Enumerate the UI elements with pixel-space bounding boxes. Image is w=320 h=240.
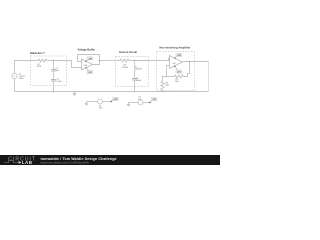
OA1 -15V flag: [85, 67, 93, 74]
wire ground rail: [15, 91, 209, 93]
inverse circuit dashed border: [116, 57, 149, 87]
wire OA2 - input to feedback node: [167, 66, 170, 77]
svg-text:1.07kΩ: 1.07kΩ: [122, 67, 129, 69]
capacitor C3: [132, 79, 137, 81]
resistor R3: [161, 81, 164, 90]
V3 label: [138, 97, 142, 101]
wire OA2 output: [182, 61, 208, 63]
node C2/rail junction: [53, 91, 55, 93]
svg-text:1kΩ: 1kΩ: [175, 81, 179, 83]
C3 label: [136, 78, 142, 82]
non-inverting amplifier dashed border: [157, 52, 195, 91]
svg-text:Voltage Buffer: Voltage Buffer: [78, 48, 96, 52]
voltage source V2: [98, 99, 103, 104]
svg-text:+: +: [170, 59, 171, 61]
svg-text:http://circuitlab.com/c7yd7k3e: http://circuitlab.com/c7yd7k3ey3r4b: [41, 161, 90, 165]
OA2 +15V flag: [174, 54, 182, 59]
wire inverse box left to R4: [116, 60, 121, 62]
R3 label: [165, 82, 169, 86]
svg-text:15V: 15V: [99, 108, 103, 110]
wire V3 ground to source: [129, 102, 139, 104]
svg-text:Non-inverting Amplifier: Non-inverting Amplifier: [160, 45, 191, 49]
node R3/rail junction: [162, 91, 164, 93]
wire R3 to rail: [162, 90, 164, 92]
node R1/C1 junction: [53, 60, 55, 62]
wire V1 top to R1: [15, 61, 39, 74]
black box dashed border: [31, 56, 67, 86]
svg-text:Inverse Circuit: Inverse Circuit: [119, 50, 137, 54]
voltage source V1: [12, 73, 17, 78]
wire buffer output to inverse box: [100, 60, 116, 62]
svg-text:OA1: OA1: [84, 64, 88, 67]
svg-text:1kHz: 1kHz: [19, 78, 24, 80]
wire V3 to flag: [143, 102, 150, 104]
svg-text:−: −: [82, 62, 83, 64]
footer bar: [0, 155, 220, 165]
wire C3 to rail: [134, 80, 136, 91]
wire node to L1: [134, 61, 136, 66]
OA1 +15V flag: [85, 57, 93, 62]
node R4/L1 junction: [134, 60, 136, 62]
svg-text:OA2: OA2: [172, 62, 176, 65]
wire L1 to C3: [134, 71, 136, 78]
wire feedback node to R2: [167, 76, 175, 78]
svg-text:100nF: 100nF: [136, 80, 142, 82]
node buffer output: [99, 60, 101, 62]
svg-text:LAB: LAB: [22, 160, 33, 165]
op-amp OA1 feedback wire: [78, 55, 100, 65]
wire node to C1: [53, 61, 55, 70]
inductor L1: [134, 65, 137, 71]
ground on rail: [72, 92, 76, 96]
svg-text:−: −: [170, 65, 171, 67]
svg-text:+: +: [82, 68, 83, 70]
R1 label: [36, 64, 41, 68]
wire V2 to flag: [103, 101, 111, 103]
wire inverse box to OA2 + input: [149, 59, 170, 61]
wire V1 bottom to rail: [14, 79, 16, 92]
wire C1 to C2: [53, 71, 55, 79]
wire V2 ground to source: [87, 101, 98, 103]
+15V net flag: [110, 97, 118, 102]
C1 label: [56, 68, 60, 72]
wire output down right edge: [208, 62, 210, 92]
resistor R1: [38, 59, 47, 62]
ground for V2: [85, 102, 89, 106]
OA2 -15V flag: [174, 66, 182, 74]
svg-text:4.7μF: 4.7μF: [56, 81, 62, 83]
R4 label: [122, 65, 129, 69]
V1 label: [19, 74, 26, 80]
svg-text:1kΩ: 1kΩ: [165, 85, 169, 87]
capacitor C1: [51, 70, 56, 72]
node OA2 output junction: [189, 61, 191, 63]
C2 label: [56, 79, 62, 83]
capacitor C2: [51, 80, 56, 82]
resistor R4: [120, 59, 129, 62]
L1 label: [136, 66, 143, 70]
-15V net flag: [149, 98, 157, 104]
wire C2 to rail: [53, 81, 55, 91]
svg-text:470Ω: 470Ω: [36, 66, 41, 68]
node C3/rail junction: [134, 91, 136, 93]
V2 label: [99, 105, 103, 109]
wire R2 to output node: [183, 62, 189, 77]
resistor R2: [174, 75, 183, 78]
op-amp OA2: [170, 56, 183, 69]
node feedback junction: [166, 76, 168, 78]
svg-text:100mH: 100mH: [136, 69, 143, 71]
CircuitLab logo: [4, 157, 36, 165]
voltage source V3: [138, 100, 143, 105]
wire R4 to non-inv box: [129, 60, 149, 62]
svg-text:Black Box ?: Black Box ?: [30, 51, 45, 55]
op-amp OA1: [82, 59, 93, 70]
wire R1 to buffer input: [47, 61, 82, 68]
svg-text:1μF: 1μF: [56, 70, 60, 72]
ground for V3: [127, 103, 131, 107]
R2 label: [175, 79, 179, 83]
wire feedback node to R3: [163, 77, 167, 82]
